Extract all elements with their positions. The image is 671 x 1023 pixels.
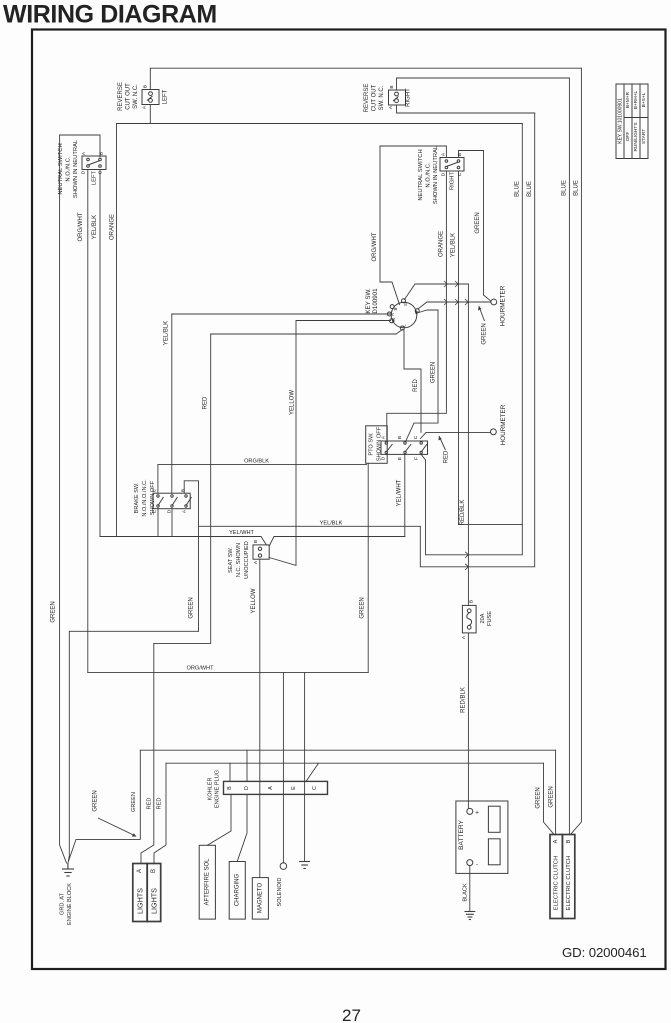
neutral switch RIGHT connector <box>440 158 464 172</box>
green callout arrow at engine ground wire <box>98 818 135 836</box>
svg-text:A: A <box>81 151 87 155</box>
svg-text:B: B <box>566 839 572 843</box>
svg-text:F: F <box>414 457 420 460</box>
svg-text:A: A <box>182 509 188 513</box>
svg-text:ORANGE: ORANGE <box>439 231 445 257</box>
pto switch connector <box>381 441 428 454</box>
wire: org/wht vertical x=380 to key switch <box>380 146 400 305</box>
svg-text:GREEN: GREEN <box>549 786 555 807</box>
svg-text:GREEN: GREEN <box>189 597 195 618</box>
junction chevron at red/blk x hourmeter wire <box>465 299 468 305</box>
wire: green horizontal y=631.3 to ground <box>68 631 199 863</box>
wire: reverse right top bus y=78 <box>397 78 570 90</box>
svg-text:GREEN: GREEN <box>131 792 137 812</box>
svg-text:N.O./N.O./N.C.: N.O./N.O./N.C. <box>142 479 148 517</box>
junction chevron at orange x s-wire <box>455 281 458 287</box>
wire: green horizontal y=750.2 <box>140 749 555 751</box>
svg-text:YEL/WHT: YEL/WHT <box>229 530 254 536</box>
svg-text:GREEN: GREEN <box>93 790 99 811</box>
svg-text:OFF: OFF <box>625 132 631 142</box>
lights connector B <box>147 864 161 922</box>
svg-text:BRAKE SW.: BRAKE SW. <box>134 482 140 513</box>
svg-text:R: R <box>414 311 419 314</box>
svg-text:ELECTRIC CLUTCH: ELECTRIC CLUTCH <box>566 856 572 911</box>
svg-text:ORG/WHT: ORG/WHT <box>186 666 214 672</box>
svg-text:ORG/WHT: ORG/WHT <box>372 232 378 261</box>
wire: kohler plug pin D stub <box>246 750 248 781</box>
svg-text:D: D <box>244 786 250 790</box>
svg-text:27: 27 <box>342 1006 361 1023</box>
svg-text:YEL/BLK: YEL/BLK <box>92 215 98 239</box>
svg-text:D: D <box>81 170 87 174</box>
wire: ground-symbol feed vertical x=304.6 <box>304 672 306 861</box>
svg-text:ORANGE: ORANGE <box>110 214 116 240</box>
electric clutch connector B <box>562 835 574 919</box>
svg-text:B: B <box>227 786 233 790</box>
wire: yel/wht horizontal y=536.5 <box>100 536 261 538</box>
wire: pto C to hourmeter2 y=432.4 <box>421 432 491 438</box>
wire: orange vertical x=446.4 <box>387 172 447 442</box>
ground symbol below battery <box>465 912 476 920</box>
solenoid circle <box>280 863 287 870</box>
svg-text:GREEN: GREEN <box>536 787 542 808</box>
wire: green horizontal y=763.2 <box>166 762 544 764</box>
svg-text:GREEN: GREEN <box>475 212 481 233</box>
hourmeter 1 circle <box>491 299 497 305</box>
svg-text:LEFT: LEFT <box>92 170 98 185</box>
red callout arrow at pto <box>439 436 446 450</box>
svg-text:RED: RED <box>444 450 450 463</box>
svg-text:YELLOW: YELLOW <box>290 390 296 415</box>
svg-text:BLACK: BLACK <box>463 883 469 902</box>
svg-text:B: B <box>397 436 403 439</box>
ground at engine block symbol <box>62 863 74 876</box>
svg-text:A: A <box>268 786 274 790</box>
wire: key switch S to fuse bus y=284 <box>405 284 469 300</box>
fuse <box>462 605 476 633</box>
svg-text:RED/BLK: RED/BLK <box>460 500 466 526</box>
junction chevron at orange x hourmeter wire <box>455 299 458 305</box>
wire: reverse left top bus y=68 <box>150 68 581 89</box>
wire: neutral right pin A jumper y=146 <box>380 146 446 158</box>
svg-text:BLUE: BLUE <box>515 181 521 197</box>
wire: red/blk fuse to battery <box>467 633 469 809</box>
wire: green vertical x=555.6 to clutch <box>555 750 557 834</box>
wire: org/wht vertical x=87.8 <box>87 170 89 673</box>
wire: green vertical x=59.6 <box>60 135 67 863</box>
svg-text:N.O./N.C.: N.O./N.C. <box>426 162 432 188</box>
svg-text:B: B <box>181 489 187 492</box>
svg-text:M: M <box>391 318 396 322</box>
svg-text:SW. N.C.: SW. N.C. <box>379 85 385 110</box>
electric clutch connector A <box>550 835 562 919</box>
svg-text:YEL/WHT: YEL/WHT <box>397 479 403 506</box>
key switch table <box>616 84 648 159</box>
svg-text:RED: RED <box>203 396 209 409</box>
wire: seat pin A down yellow to magneto x=259.8 <box>259 559 261 877</box>
wire: green vertical x=483.5 to hourmeter <box>484 151 491 302</box>
svg-text:START: START <box>641 129 647 144</box>
kohler plug pin letters <box>227 786 318 790</box>
svg-text:RED: RED <box>147 798 153 810</box>
pto switch label box <box>366 426 388 464</box>
charging box <box>229 862 245 920</box>
svg-text:LIGHTS: LIGHTS <box>149 888 158 914</box>
svg-text:SHOWN IN NEUTRAL: SHOWN IN NEUTRAL <box>433 145 439 204</box>
svg-text:C: C <box>98 170 104 174</box>
wire: red vertical x=166 to lights B <box>154 763 166 863</box>
svg-text:E: E <box>291 786 297 790</box>
kohler engine plug box <box>224 781 328 794</box>
svg-text:B: B <box>99 152 105 155</box>
svg-text:+: + <box>475 810 479 817</box>
brake switch pin letters <box>152 488 188 513</box>
svg-text:A: A <box>461 635 467 639</box>
svg-text:GREEN: GREEN <box>51 601 57 622</box>
reverse cut out switch LEFT <box>142 90 159 105</box>
svg-text:KEY SW.101000901: KEY SW.101000901 <box>618 98 624 144</box>
svg-text:D: D <box>167 509 173 513</box>
svg-text:RED/BLK: RED/BLK <box>461 687 467 713</box>
wire: yel/blk y=313.5 key A to brake <box>172 313 391 315</box>
wire: orange vertical x=116.5 <box>116 124 118 537</box>
svg-text:-: - <box>476 861 478 868</box>
svg-text:CHARGING: CHARGING <box>234 874 240 907</box>
wire: reverse left bottom bus y=123.5 <box>149 105 151 124</box>
wire: kohler plug pin C diagonal leader <box>306 763 319 781</box>
svg-text:C: C <box>152 488 158 492</box>
svg-text:B: B <box>151 869 157 873</box>
svg-text:ENGINE BLOCK: ENGINE BLOCK <box>67 883 73 925</box>
svg-text:SOLENOID: SOLENOID <box>277 878 283 907</box>
wire: red y=334 key L branch <box>396 330 403 335</box>
wire: charging leader to plug D <box>237 794 247 861</box>
svg-text:GRD. AT: GRD. AT <box>60 892 66 915</box>
svg-text:PTO SW.: PTO SW. <box>369 432 375 456</box>
svg-text:RIGHT: RIGHT <box>450 172 456 190</box>
svg-text:NEUTRAL SWITCH: NEUTRAL SWITCH <box>418 149 424 200</box>
wire: battery negative to ground <box>469 866 471 911</box>
svg-text:HOURMETER: HOURMETER <box>500 404 507 445</box>
svg-text:GD: 02000461: GD: 02000461 <box>562 945 647 960</box>
svg-text:GREEN: GREEN <box>360 597 366 618</box>
svg-text:D: D <box>441 172 447 176</box>
wire: kohler plug pin B stub <box>229 763 231 781</box>
svg-text:ORG/BLK: ORG/BLK <box>244 459 269 465</box>
wire: org/blk stub to brake pin C <box>157 465 159 494</box>
svg-text:E: E <box>397 457 403 460</box>
key switch circle <box>387 299 419 330</box>
wire: red vertical x=210.7 <box>154 334 211 643</box>
green callout arrow at hourmeter <box>479 306 485 321</box>
wire: green vertical x=543.5 to clutch <box>544 763 555 834</box>
svg-text:YEL/BLK: YEL/BLK <box>164 321 170 345</box>
svg-text:A: A <box>142 105 148 109</box>
junction chevron at red/blk x yel/blk wire <box>465 564 468 570</box>
svg-text:B+M+R: B+M+R <box>625 91 631 108</box>
svg-text:B: B <box>389 85 395 88</box>
svg-text:AFTERFIRE SOL: AFTERFIRE SOL <box>205 858 211 906</box>
wire: key switch bottom jog to red x=421 <box>404 330 421 433</box>
svg-text:YELLOW: YELLOW <box>251 588 257 613</box>
svg-text:ENGINE PLUG: ENGINE PLUG <box>215 770 221 808</box>
lights connector A <box>133 864 147 922</box>
svg-text:ORG/WHT: ORG/WHT <box>78 212 84 241</box>
svg-text:RED: RED <box>157 798 163 810</box>
wire: green vertical x=438 to pto B <box>406 310 438 441</box>
svg-text:UNOCCUPIED: UNOCCUPIED <box>244 541 250 579</box>
svg-text:D100901: D100901 <box>372 288 379 314</box>
ground symbol near solenoid <box>299 862 310 869</box>
svg-text:L: L <box>402 324 407 327</box>
afterfire sol box <box>199 845 215 919</box>
wire: neutral right pin B jumper y=150.5 <box>459 151 484 158</box>
svg-text:B+RH+L: B+RH+L <box>633 90 639 109</box>
svg-text:D: D <box>381 456 387 460</box>
svg-text:SHOWN IN NEUTRAL: SHOWN IN NEUTRAL <box>73 139 79 198</box>
neutral switch LEFT connector <box>82 156 106 170</box>
seat switch connector <box>253 545 269 559</box>
wire: brake pin B jumper <box>184 481 198 632</box>
svg-text:CUT OUT: CUT OUT <box>126 83 132 110</box>
wire: yellow y=320 key M to seat branch <box>296 320 391 322</box>
svg-text:N.C. SHOWN: N.C. SHOWN <box>236 543 242 577</box>
svg-text:A: A <box>441 152 447 156</box>
svg-text:SW. N.C.: SW. N.C. <box>133 84 139 109</box>
wire: blue #3 vertical x=569 <box>568 78 570 835</box>
magneto box <box>252 878 268 920</box>
svg-text:REVERSE: REVERSE <box>364 84 370 113</box>
svg-text:ELECTRIC CLUTCH: ELECTRIC CLUTCH <box>553 856 559 911</box>
wire: red vertical x=155.4 to lights A <box>141 643 154 863</box>
wire: blue #4 vertical x=581 <box>571 68 582 834</box>
wire: yel/blk vertical x=458.5 <box>459 172 523 525</box>
wire: afterfire leader to plug B <box>207 794 231 845</box>
wire: yel/blk vertical x=171.8 <box>171 314 173 493</box>
wire: orange horizontal y=123.5 <box>117 123 523 125</box>
svg-text:A: A <box>253 560 259 564</box>
key switch pin letters <box>390 303 419 327</box>
svg-text:C: C <box>457 172 463 176</box>
hourmeter 2 circle <box>491 429 497 435</box>
wire: brake pin bottom stubs <box>157 509 159 537</box>
wire: reverse right bottom bus y=113 <box>397 105 535 113</box>
svg-text:GREEN: GREEN <box>431 362 437 383</box>
svg-text:BLUE: BLUE <box>562 180 568 196</box>
svg-text:A: A <box>553 839 559 843</box>
wire: blue #1 vertical x=522.3 <box>421 124 522 555</box>
wire: seat to pto E horizontal y=536.5 <box>269 537 405 547</box>
svg-text:LEFT: LEFT <box>163 89 169 104</box>
svg-text:YEL/BLK: YEL/BLK <box>320 521 343 527</box>
svg-text:B: B <box>143 85 149 88</box>
svg-text:C: C <box>413 435 419 439</box>
junction chevron at yel/blk x s-wire <box>444 281 447 287</box>
wire: yel/blk vertical x=100 <box>99 170 101 537</box>
svg-text:A: A <box>388 105 394 109</box>
wire: blue #2 vertical x=534.7 <box>420 113 534 567</box>
wire: green vertical x=140.3 to engine ground <box>69 750 141 861</box>
svg-text:MAGNETO: MAGNETO <box>257 883 263 914</box>
wire: red/blk vertical x=468.4 fuse feed <box>467 284 469 605</box>
wire: yellow vertical x=296 to seat <box>269 321 296 566</box>
brake switch connector <box>153 493 192 509</box>
svg-text:BLUE: BLUE <box>527 181 533 197</box>
svg-text:RIGHT: RIGHT <box>406 88 412 107</box>
reverse cut out switch RIGHT <box>389 90 406 105</box>
wire: neutral left pin B jumper y=135 <box>60 135 100 157</box>
wire: pto E down yel/wht x=404.8 <box>404 454 406 536</box>
svg-text:GREEN: GREEN <box>482 323 488 344</box>
wire: green vertical x=368.2 pto D <box>367 463 369 672</box>
svg-text:E: E <box>152 510 158 513</box>
svg-text:BATTERY: BATTERY <box>458 820 465 850</box>
wire: key switch R2 to pto green y=310 <box>419 310 438 313</box>
svg-text:B+S+L: B+S+L <box>641 92 647 107</box>
svg-text:20A: 20A <box>480 613 486 623</box>
wire: org/wht horizontal y=672.4 <box>88 671 368 673</box>
junction chevron at yel/blk x hourmeter wire <box>444 299 447 305</box>
svg-text:B: B <box>253 540 259 543</box>
svg-text:B: B <box>457 153 463 156</box>
wire: key switch R to hourmeter y=302 <box>419 302 491 309</box>
wire: yel/blk horizontal y=526.3 <box>199 525 421 527</box>
wire: org/blk horizontal y=464.6 <box>158 464 367 466</box>
svg-text:A: A <box>390 313 395 316</box>
svg-text:YEL/BLK: YEL/BLK <box>451 233 457 257</box>
svg-text:B: B <box>393 307 398 310</box>
svg-text:SEAT SW.: SEAT SW. <box>228 547 234 573</box>
svg-text:BLUE: BLUE <box>574 180 580 196</box>
junction chevron at red/blk x pto-f wire <box>465 552 468 558</box>
svg-text:WIRING DIAGRAM: WIRING DIAGRAM <box>3 1 217 29</box>
svg-text:NEUTRAL SWITCH: NEUTRAL SWITCH <box>58 143 64 194</box>
svg-text:FUSE: FUSE <box>487 611 493 626</box>
wire: solenoid feed vertical x=283.4 <box>282 672 284 862</box>
battery box <box>456 801 508 873</box>
svg-text:SHOWN OFF: SHOWN OFF <box>150 480 156 515</box>
svg-text:B: B <box>469 600 475 603</box>
svg-text:CUT OUT: CUT OUT <box>372 84 378 111</box>
svg-text:N.O./N.C.: N.O./N.C. <box>66 156 72 182</box>
svg-text:KEY SW.: KEY SW. <box>365 288 372 314</box>
svg-text:REVERSE: REVERSE <box>118 82 124 111</box>
svg-text:A: A <box>137 869 143 873</box>
svg-text:KOHLER: KOHLER <box>208 777 214 800</box>
svg-text:LIGHTS: LIGHTS <box>136 888 145 914</box>
svg-text:HOURMETER: HOURMETER <box>500 285 507 326</box>
svg-text:RUN/LIGHTS: RUN/LIGHTS <box>633 122 639 151</box>
wire: seat switch feed diagonal <box>261 537 267 546</box>
svg-text:SHOWN OFF: SHOWN OFF <box>377 426 383 461</box>
svg-text:RED: RED <box>413 379 419 392</box>
svg-text:S: S <box>403 303 408 306</box>
pto switch pin letters <box>381 435 420 460</box>
svg-text:C: C <box>312 786 318 790</box>
